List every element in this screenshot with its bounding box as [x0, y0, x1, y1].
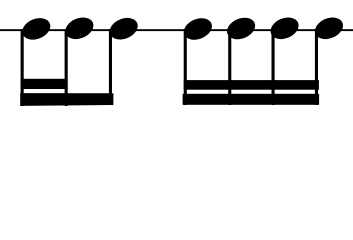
note 3 head	[106, 14, 141, 44]
note 5 stem	[228, 29, 231, 105]
staff line	[0, 29, 353, 31]
note 4 stem	[184, 29, 187, 105]
note 1 head	[19, 14, 54, 44]
note 3 stem	[109, 29, 112, 105]
note 6 head	[267, 14, 302, 44]
note 5 head	[224, 14, 259, 44]
secondary beam, notes 4-7	[184, 80, 319, 90]
primary beam, notes 1-3	[20, 93, 113, 106]
note 2 head	[62, 14, 97, 44]
primary beam, notes 4-7	[183, 94, 320, 105]
note 4 head	[181, 14, 216, 44]
note 7 head	[312, 14, 347, 44]
note 7 stem	[315, 29, 318, 105]
note 2 stem	[65, 29, 68, 106]
note 1 stem	[21, 29, 24, 106]
secondary beam, notes 1-2	[21, 79, 68, 89]
note 6 stem	[272, 29, 275, 105]
